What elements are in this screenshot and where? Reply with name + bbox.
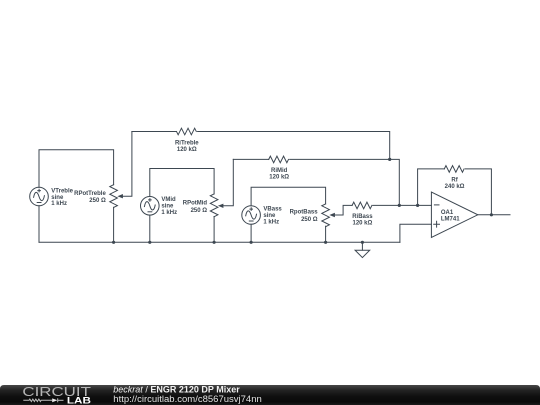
footer bar — [0, 385, 540, 405]
potentiometer RpotBass — [322, 204, 330, 227]
junction on rail at RPotTreble — [112, 241, 115, 244]
junction inverting node left — [398, 204, 401, 207]
resistor RiMid — [269, 156, 289, 163]
wire RiMid left — [233, 158, 268, 160]
svg-text:OA1: OA1 — [441, 210, 454, 216]
svg-text:sine: sine — [263, 213, 276, 219]
resistor Rf — [444, 166, 464, 173]
CircuitLab logo resistor-diode glyph — [23, 398, 63, 402]
voltage source VBass — [242, 206, 261, 225]
svg-text:240 kΩ: 240 kΩ — [445, 184, 465, 190]
svg-text:sine: sine — [161, 204, 174, 210]
label Rf value — [445, 177, 465, 190]
ground — [355, 250, 370, 257]
wire RPotMid wiper to RiMid — [223, 159, 233, 205]
svg-text:120 kΩ: 120 kΩ — [177, 147, 197, 153]
svg-text:LM741: LM741 — [441, 217, 460, 223]
wire RiTreble left — [132, 131, 177, 133]
label VMid value — [161, 197, 177, 216]
svg-text:RiTreble: RiTreble — [175, 140, 199, 146]
op-amp plus input symbol — [434, 221, 440, 227]
label RPotMid value — [183, 201, 208, 214]
wire RPotTreble wiper to RiTreble — [122, 132, 131, 197]
potentiometer RPotMid — [210, 194, 218, 217]
op-amp minus input symbol — [434, 204, 439, 206]
svg-text:http://circuitlab.com/c8567usv: http://circuitlab.com/c8567usvj74nn — [113, 394, 261, 404]
wire bottom ground rail — [39, 241, 400, 243]
junction on rail at VBass — [250, 241, 253, 244]
junction node A RiTreble-RiMid — [388, 158, 391, 161]
wiper arrow RPotMid — [218, 204, 224, 208]
label RPotTreble value — [74, 191, 106, 204]
wire RiTreble right to node A — [198, 132, 390, 160]
svg-text:VBass: VBass — [263, 207, 282, 213]
voltage source VMid — [141, 197, 160, 216]
label RiMid value — [269, 168, 289, 181]
resistor RiBass — [352, 202, 372, 209]
junction on rail at RpotBass — [324, 241, 327, 244]
svg-text:1 kHz: 1 kHz — [161, 210, 177, 216]
wire RpotBass wiper jog to RiBass — [334, 205, 352, 215]
label VTreble value — [51, 189, 73, 208]
junction on rail at RPotMid — [213, 241, 216, 244]
wire RiMid right down to inverting input — [290, 159, 400, 205]
wire VMid bottom lead — [149, 215, 151, 242]
wire ground stem — [361, 242, 363, 250]
svg-text:sine: sine — [51, 195, 64, 201]
junction inverting node Rf — [416, 204, 419, 207]
op-amp OA1 body — [431, 192, 477, 238]
wire Rf feedback left leg — [418, 169, 445, 206]
label OA1 LM741 — [441, 210, 460, 223]
svg-text:RiBass: RiBass — [352, 214, 373, 220]
voltage source VTreble — [30, 187, 49, 206]
svg-text:RpotBass: RpotBass — [290, 210, 319, 216]
svg-text:VTreble: VTreble — [51, 189, 73, 195]
wire VBass bottom lead — [250, 224, 252, 242]
svg-text:120 kΩ: 120 kΩ — [352, 221, 372, 227]
svg-text:RiMid: RiMid — [271, 168, 288, 174]
wire output — [478, 214, 510, 216]
wire VBass top loop — [251, 187, 326, 206]
svg-text:RPotTreble: RPotTreble — [74, 191, 106, 197]
svg-text:250 Ω: 250 Ω — [89, 198, 106, 204]
wiper arrow RpotBass — [329, 213, 335, 217]
label RiBass value — [352, 214, 373, 227]
svg-text:VMid: VMid — [161, 197, 176, 203]
svg-text:250 Ω: 250 Ω — [301, 217, 318, 223]
wire RpotBass bottom — [325, 226, 327, 242]
junction output node — [490, 213, 493, 216]
wire non-inverting input to rail — [400, 224, 432, 242]
resistor RiTreble — [177, 128, 197, 135]
wire Rf right leg to output — [465, 169, 491, 215]
svg-text:RPotMid: RPotMid — [183, 201, 208, 207]
label RiTreble value — [175, 140, 199, 153]
svg-text:120 kΩ: 120 kΩ — [269, 175, 289, 181]
label RpotBass value — [290, 210, 319, 223]
wire VTreble top loop — [39, 150, 114, 187]
svg-text:1 kHz: 1 kHz — [263, 219, 279, 225]
svg-text:LAB: LAB — [67, 396, 91, 405]
svg-text:Rf: Rf — [451, 177, 458, 183]
svg-text:1 kHz: 1 kHz — [51, 201, 67, 207]
wire RPotTreble bottom — [113, 207, 115, 242]
junction on rail at VMid — [148, 241, 151, 244]
wiper arrow RPotTreble — [117, 194, 123, 198]
label VBass value — [263, 207, 282, 226]
svg-text:250 Ω: 250 Ω — [191, 208, 208, 214]
wire RiBass right to op-amp inverting input — [373, 204, 432, 206]
wire RPotMid bottom — [213, 217, 215, 243]
junction on rail at ground — [361, 241, 364, 244]
potentiometer RPotTreble — [110, 185, 118, 208]
wire VMid top loop — [150, 169, 214, 197]
wire VTreble bottom lead — [38, 206, 40, 243]
